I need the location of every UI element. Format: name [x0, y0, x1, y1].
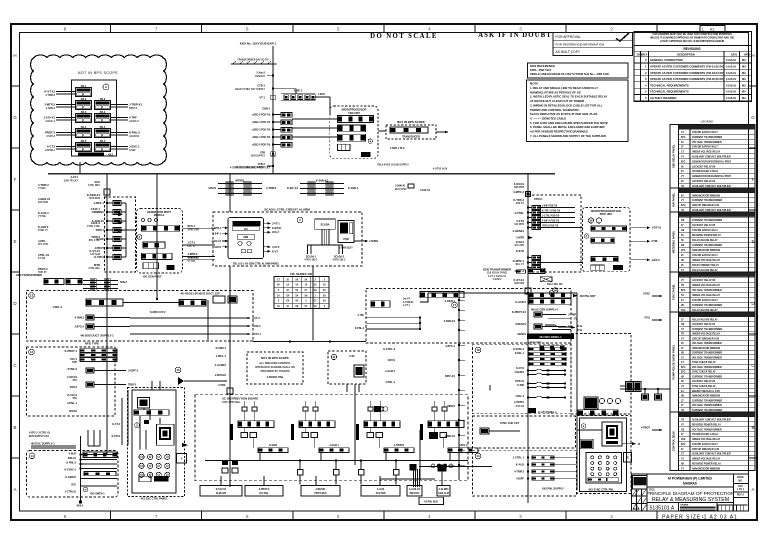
- title block scale cells: [717, 505, 719, 511]
- svg-text:5A: 5A: [323, 300, 326, 303]
- wires feeder to protection module: [575, 227, 583, 229]
- svg-text:K-XT01: K-XT01: [516, 368, 525, 370]
- svg-text:CTRL DIFF: CTRL DIFF: [88, 185, 101, 187]
- svg-text:AUX 59N: AUX 59N: [376, 492, 386, 495]
- svg-text:REAR VT MET CKT SUPPLY: REAR VT MET CKT SUPPLY: [235, 88, 265, 91]
- svg-text:STATOR EARTH FAULT: STATOR EARTH FAULT: [692, 146, 718, 149]
- svg-text:4-MTR: 4-MTR: [318, 93, 325, 96]
- svg-text:K-51V-2: K-51V-2: [67, 393, 77, 397]
- svg-text:7. ALL PANELS SHOWN ARE SUPPLY: 7. ALL PANELS SHOWN ARE SUPPLY OF THE SU…: [530, 134, 606, 138]
- svg-text:PRINCIPLE DIAGRAM OF PROTECTIO: PRINCIPLE DIAGRAM OF PROTECTION: [647, 491, 735, 496]
- svg-text:K-VT-X1: K-VT-X1: [89, 249, 100, 253]
- svg-text:VOLTAGE TRANSFORMER: VOLTAGE TRANSFORMER: [692, 356, 722, 359]
- svg-text:J-87G-1: J-87G-1: [459, 444, 469, 447]
- svg-text:4-PNL-1: 4-PNL-1: [67, 401, 78, 405]
- svg-text:CURRENT TRANSFORMER: CURRENT TRANSFORMER: [692, 304, 722, 307]
- station service vertical bus v3: [229, 341, 231, 487]
- svg-text:4X0-1: 4X0-1: [76, 504, 84, 508]
- svg-text:PAPER SIZE 1 A2 03 A1: PAPER SIZE 1 A2 03 A1: [662, 515, 738, 521]
- svg-text:TRF01 POS-7/9: TRF01 POS-7/9: [542, 226, 559, 228]
- svg-text:SYNC: SYNC: [643, 293, 650, 296]
- svg-text:b: b: [105, 85, 107, 89]
- svg-text:11: 11: [332, 355, 335, 359]
- svg-text:59N-X1: 59N-X1: [68, 457, 77, 460]
- sync panel dashed enclosure: [577, 416, 631, 494]
- protection module connector 2: [591, 238, 615, 243]
- svg-text:FIELD FAILURE RELAY: FIELD FAILURE RELAY: [692, 318, 718, 321]
- control unit output wires: [263, 222, 270, 224]
- turbogenerator control unit: [228, 218, 263, 259]
- svg-text:J-GEN01: J-GEN01: [513, 229, 525, 233]
- svg-text:REV: REV: [643, 54, 648, 56]
- svg-text:4-BUS: 4-BUS: [69, 453, 77, 456]
- svg-text:87G: 87G: [681, 444, 686, 446]
- feeder tap relay: [107, 229, 113, 231]
- svg-text:XX: XX: [286, 301, 290, 303]
- svg-text:CURRENT TRANSFORMER: CURRENT TRANSFORMER: [692, 199, 722, 202]
- zone C lower wires: [81, 478, 118, 480]
- svg-text:MTR: MTR: [94, 263, 100, 267]
- annunciator display unit: [156, 424, 174, 445]
- feeder tap relay: [107, 202, 113, 204]
- excitation terminal bar: [134, 410, 169, 416]
- svg-text:4TB: 4TB: [260, 151, 265, 155]
- svg-text:J-EXC.2: J-EXC.2: [129, 119, 139, 123]
- svg-text:4-BUS01: 4-BUS01: [515, 322, 526, 326]
- svg-text:SYNC PANEL: SYNC PANEL: [672, 283, 676, 300]
- svg-text:RFB TYPE: RFB TYPE: [85, 342, 99, 346]
- svg-text:4-AUX: 4-AUX: [377, 488, 385, 491]
- cloud boundary NOT IN BPS SCOPE generator relay panel: [31, 55, 167, 165]
- microprocessor protection module dashed: [583, 207, 630, 271]
- svg-text:87G CTRL: 87G CTRL: [89, 240, 101, 242]
- svg-text:J-REL-2: J-REL-2: [52, 305, 62, 309]
- svg-text:AVR PANEL: AVR PANEL: [672, 192, 676, 207]
- svg-text:TR: TR: [681, 410, 684, 412]
- svg-text:UNLESS IT IS MARKED APPROVED B: UNLESS IT IS MARKED APPROVED BY OWNER OR…: [650, 37, 735, 40]
- svg-text:ALL BREAKER CONTROL: ALL BREAKER CONTROL: [259, 361, 291, 365]
- svg-text:K-PROT-1: K-PROT-1: [65, 349, 78, 353]
- right section vertical bus v6: [458, 290, 460, 480]
- svg-text:K-MTR-1: K-MTR-1: [513, 259, 525, 263]
- svg-text:J-59N-X1: J-59N-X1: [395, 185, 406, 188]
- protection module connector row 2: [143, 242, 165, 248]
- bus duct ladder: [83, 280, 118, 282]
- legend group AVR PANEL: [670, 187, 755, 189]
- NOT IN BPS SCOPE annotation box lower: [247, 352, 303, 384]
- svg-text:VT PNL: VT PNL: [38, 216, 47, 218]
- vertical feeder to 11kV bus bar 1: [272, 46, 274, 174]
- svg-text:59N MTR: 59N MTR: [514, 187, 524, 189]
- v8 stacked connector bars: [529, 293, 571, 298]
- svg-text:14.06.19: 14.06.19: [726, 65, 736, 69]
- svg-text:C/S: C/S: [244, 229, 248, 231]
- svg-text:LOCKOUT RELAY 86: LOCKOUT RELAY 86: [692, 279, 716, 282]
- svg-text:TRIP-2: TRIP-2: [128, 383, 137, 387]
- svg-text:51N: 51N: [681, 310, 686, 312]
- svg-text:VT-1: VT-1: [259, 96, 265, 100]
- svg-text:J-87G-2: J-87G-2: [74, 325, 84, 329]
- svg-text:TRIP-2: TRIP-2: [91, 235, 100, 239]
- T&M cell row 4: [338, 144, 351, 150]
- zone 1 contact taps: [527, 370, 529, 372]
- right feeder tap: [527, 227, 529, 229]
- svg-text:SCADA: SCADA: [320, 223, 329, 227]
- svg-text:14.06.19: 14.06.19: [726, 77, 736, 81]
- svg-text:UNDER VOLTAGE RELAY: UNDER VOLTAGE RELAY: [692, 284, 721, 287]
- tie wire center: [253, 341, 366, 343]
- module drop wires: [369, 428, 371, 433]
- bus duct transition components: [44, 279, 64, 285]
- svg-text:J-E/F-2: J-E/F-2: [652, 259, 661, 262]
- right generator feeder vertical bus: [527, 174, 529, 503]
- protection module connector row 1: [142, 225, 180, 231]
- svg-text:DATE: DATE: [731, 53, 738, 56]
- svg-text:TR: TR: [681, 285, 684, 287]
- right feeder tap: [527, 217, 529, 219]
- svg-text:4N BUS DUCT SUPPLY-1: 4N BUS DUCT SUPPLY-1: [80, 334, 114, 338]
- svg-text:SYNC CHECK RELAY: SYNC CHECK RELAY: [692, 385, 716, 388]
- cable duct bar: [258, 448, 288, 453]
- right zone ladder: [529, 347, 566, 350]
- svg-text:1 OF 1: 1 OF 1: [737, 489, 745, 491]
- wires to meter box: [577, 429, 602, 431]
- module drop wires: [304, 428, 306, 433]
- svg-text:ANNUNCIATOR WINDOW: ANNUNCIATOR WINDOW: [692, 467, 721, 470]
- svg-text:VT01: VT01: [644, 317, 650, 320]
- svg-text:K-TRF-1 POS-7/9: K-TRF-1 POS-7/9: [542, 211, 561, 213]
- switchgear zone A dashed enclosure: [27, 291, 254, 342]
- svg-text:CB: CB: [681, 324, 685, 326]
- svg-text:4-E/F-2: 4-E/F-2: [91, 221, 101, 225]
- svg-text:K-PNL-2: K-PNL-2: [355, 328, 365, 330]
- auxiliary bus segment 2: [419, 466, 492, 468]
- legend group SYNC PANEL: [670, 271, 755, 273]
- distribution module feeder: [303, 407, 308, 411]
- terminal block feeder A2: [179, 300, 206, 307]
- revisions table column rules: [640, 51, 642, 101]
- svg-text:VT REL: VT REL: [38, 188, 47, 190]
- zone C second striped bar: [84, 472, 116, 476]
- svg-text:TBL 101-1 4X GEN CTRL ALARM: TBL 101-1 4X GEN CTRL ALARM PANEL: [233, 262, 280, 265]
- svg-text:13: 13: [30, 294, 34, 298]
- zone 0 relays: [534, 312, 542, 317]
- flag markers on dashed box edge: [118, 213, 123, 216]
- circled ref 2: [297, 217, 303, 223]
- svg-text:K-SYNC-1: K-SYNC-1: [64, 469, 76, 472]
- svg-text:PUMP HOUSE SWGR PANEL: PUMP HOUSE SWGR PANEL: [672, 344, 676, 379]
- module4 black sq: [429, 432, 438, 439]
- svg-text:AUXILIARY CONTACT MULTIPLIER: AUXILIARY CONTACT MULTIPLIER: [692, 209, 731, 212]
- svg-text:M: M: [638, 444, 640, 446]
- svg-text:4-REL.2: 4-REL.2: [515, 395, 524, 398]
- svg-text:TRIP-X1: TRIP-X1: [515, 381, 525, 383]
- svg-text:J-51V-1: J-51V-1: [252, 332, 262, 336]
- svg-text:J-EXC-1: J-EXC-1: [45, 119, 55, 123]
- wire lower taps to module: [541, 262, 583, 264]
- svg-text:LOCKOUT RELAY 86: LOCKOUT RELAY 86: [692, 380, 716, 383]
- svg-text:5A: 5A: [305, 278, 308, 281]
- feeder tap relay: [107, 220, 113, 222]
- VT junction: [271, 95, 275, 99]
- svg-text:C3M-1: C3M-1: [262, 107, 270, 111]
- svg-text:B: B: [13, 425, 16, 430]
- svg-text:MTR01: MTR01: [235, 179, 244, 183]
- svg-text:J-XT1: J-XT1: [70, 175, 78, 179]
- feeder tee to metering ladder: [273, 88, 296, 90]
- svg-text:TRIP: TRIP: [72, 362, 78, 364]
- svg-text:4X2 SYNC CTRL PNL: 4X2 SYNC CTRL PNL: [588, 487, 614, 491]
- svg-text:CT 64F: CT 64F: [38, 257, 46, 260]
- svg-text:TRIP-1: TRIP-1: [96, 228, 105, 232]
- generator panel label bar: [78, 153, 104, 156]
- svg-text:M POWERGEN (P) LIMITED: M POWERGEN (P) LIMITED: [668, 477, 712, 481]
- svg-text:K-AVR.2: K-AVR.2: [38, 225, 49, 229]
- cable duct bar: [384, 448, 414, 453]
- svg-text:18: 18: [476, 348, 480, 352]
- svg-text:SHT: SHT: [738, 486, 743, 488]
- drop wires from 11kV busbar: [156, 174, 158, 184]
- center vertical bus v4: [354, 384, 356, 465]
- circled ref 30: [553, 288, 558, 293]
- svg-text:AUXILIARY CONTACT MULTIPLIER: AUXILIARY CONTACT MULTIPLIER: [692, 453, 731, 456]
- svg-text:REVISIONS: REVISIONS: [683, 47, 700, 51]
- right section vertical bus v8: [576, 293, 578, 490]
- svg-text:AUXILIARY CONTACT MULTIPLIER: AUXILIARY CONTACT MULTIPLIER: [692, 185, 731, 188]
- wire generator panel to bus: [79, 162, 81, 174]
- svg-text:J-59N-2: J-59N-2: [46, 106, 56, 110]
- svg-text:J-59N01: J-59N01: [369, 240, 379, 243]
- title block company name: [646, 474, 648, 511]
- svg-text:LOCKOUT RELAY 86: LOCKOUT RELAY 86: [692, 165, 716, 168]
- svg-text:15: 15: [176, 368, 180, 372]
- wires box B to AC distribution: [121, 398, 123, 445]
- svg-text:BUS SUPPLY CKT: BUS SUPPLY CKT: [29, 436, 50, 438]
- svg-text:59N-2: 59N-2: [120, 280, 128, 284]
- svg-text:SYNC AVR: SYNC AVR: [188, 229, 200, 232]
- svg-text:TBL SERIES 100: TBL SERIES 100: [290, 272, 313, 276]
- svg-text:K-AUX-1: K-AUX-1: [38, 211, 49, 215]
- wires far right: [620, 385, 626, 387]
- SCADA control circuit alarm dashed enclosure: [213, 212, 362, 266]
- meter box right: [602, 422, 622, 446]
- svg-text:SCADA-1: SCADA-1: [306, 256, 317, 259]
- X-marked box: [540, 277, 552, 282]
- distribution module feeder: [432, 407, 437, 411]
- svg-text:LOCKOUT RELAY 86: LOCKOUT RELAY 86: [692, 224, 716, 227]
- v3 flanking components: [222, 460, 228, 465]
- svg-text:4X1 MCC PANEL-1: 4X1 MCC PANEL-1: [539, 335, 562, 339]
- svg-text:TRANS DUCER 4-20mA: TRANS DUCER 4-20mA: [692, 170, 718, 173]
- svg-text:J-O/C01: J-O/C01: [514, 182, 525, 186]
- svg-text:11 XT1 PANEL-1: 11 XT1 PANEL-1: [538, 411, 557, 414]
- svg-text:d: d: [85, 488, 87, 492]
- SCADA cable riser bundle: [321, 229, 323, 245]
- svg-text:REL CT: REL CT: [516, 264, 525, 266]
- generator relay panel enclosure: [72, 80, 117, 156]
- legend group GEN RELAY PANEL: [670, 124, 755, 126]
- svg-text:14.06.19: 14.06.19: [726, 71, 736, 75]
- svg-text:LEGEND: LEGEND: [701, 119, 714, 123]
- right dashed zone box 1: [473, 345, 572, 414]
- metering ladder output wire: [316, 96, 330, 98]
- svg-text:G: G: [13, 115, 17, 120]
- sync cluster bar: [578, 410, 618, 416]
- svg-text:87G: 87G: [681, 367, 686, 369]
- svg-text:CURRENT TRANSFORMER: CURRENT TRANSFORMER: [692, 375, 722, 378]
- svg-text:K-VT: K-VT: [272, 249, 278, 253]
- svg-text:J-REL-1: J-REL-1: [216, 354, 227, 358]
- svg-text:J-87G: J-87G: [38, 239, 45, 243]
- svg-text:F: F: [752, 177, 755, 182]
- svg-text:XT AUX: XT AUX: [92, 211, 101, 214]
- svg-text:J-CTRL-1: J-CTRL-1: [513, 456, 525, 460]
- svg-text:4X1 EXC CTRL PANEL: 4X1 EXC CTRL PANEL: [140, 497, 168, 501]
- svg-text:TBL# 4XC 101: TBL# 4XC 101: [547, 283, 563, 286]
- svg-text:5A: 5A: [323, 294, 326, 297]
- feeder drop x157 to box A: [156, 184, 158, 300]
- svg-text:K-REL-1: K-REL-1: [515, 353, 525, 355]
- svg-text:ALM AVR: ALM AVR: [216, 492, 227, 495]
- svg-text:87G01: 87G01: [69, 409, 77, 413]
- svg-text:AVR AVR: AVR AVR: [514, 282, 524, 285]
- circled ref 14: [29, 453, 35, 459]
- right dashed zone box 2: [473, 416, 576, 448]
- svg-text:4-AUX-X1: 4-AUX-X1: [409, 488, 421, 491]
- excitation transformer block: [138, 398, 150, 409]
- svg-text:CURRENT TRANSFORMER: CURRENT TRANSFORMER: [692, 399, 722, 402]
- arrow marker right of panel: [182, 443, 188, 447]
- zone B relays: [86, 368, 94, 373]
- svg-text:K-E/F-X1: K-E/F-X1: [287, 186, 299, 190]
- wires to relay row: [56, 91, 76, 93]
- junction square right feeder: [525, 288, 531, 294]
- svg-text:4XJ: 4XJ: [108, 153, 113, 157]
- svg-text:LOCKOUT RELAY 86: LOCKOUT RELAY 86: [692, 180, 716, 183]
- right feeder junction block: [526, 192, 531, 197]
- svg-text:CURRENT TRANSFORMER: CURRENT TRANSFORMER: [692, 136, 722, 139]
- svg-text:UNDER VOLTAGE RELAY: UNDER VOLTAGE RELAY: [692, 294, 721, 297]
- test switch circle: [141, 218, 144, 221]
- right feeder tap: [527, 212, 529, 214]
- busbar cable link ladder: [300, 183, 344, 185]
- svg-text:ASK IF IN DOUBT: ASK IF IN DOUBT: [478, 32, 552, 39]
- svg-text:LATEST APPROVED REV NO. IS INC: LATEST APPROVED REV NO. IS INCORPORATED …: [660, 40, 725, 43]
- svg-text:TBL# 4XXX 101/1N SUPPLY: TBL# 4XXX 101/1N SUPPLY: [377, 164, 409, 167]
- svg-text:4-PROT.2: 4-PROT.2: [259, 488, 270, 491]
- MCC panel black title bar: [527, 334, 574, 340]
- svg-text:PROT UNIT: PROT UNIT: [600, 214, 613, 216]
- transducer output wire: [436, 131, 448, 133]
- svg-text:K-GEN: K-GEN: [269, 444, 277, 447]
- approval checkmark: [616, 33, 629, 41]
- svg-text:SYNC.2: SYNC.2: [67, 367, 77, 371]
- far right black cluster: [626, 382, 634, 392]
- svg-text:K-PNL-2: K-PNL-2: [129, 131, 140, 135]
- cable duct bar: [448, 448, 478, 453]
- svg-text:1A: 1A: [323, 284, 326, 287]
- zone row ticks right: [749, 85, 757, 87]
- svg-text:E: E: [751, 239, 754, 244]
- svg-text:KKS No. 11KV BUS BAR 1: KKS No. 11KV BUS BAR 1: [240, 42, 277, 46]
- distribution module feeder: [368, 407, 373, 411]
- zone C vertical bus: [80, 436, 82, 502]
- wire T&M unit to transducer: [378, 130, 386, 132]
- svg-text:TR: TR: [681, 420, 684, 422]
- svg-text:SYNC CHK CKT: SYNC CHK CKT: [500, 421, 520, 425]
- svg-text:TRANSFORMER BAY (E) TIE: TRANSFORMER BAY (E) TIE: [237, 59, 269, 62]
- right margin arrows to legend: [652, 295, 662, 297]
- svg-text:MA: MA: [742, 83, 746, 87]
- svg-text:2-XF: 2-XF: [349, 354, 355, 358]
- svg-text:51V-1: 51V-1: [70, 357, 77, 361]
- svg-text:MADRAS: MADRAS: [683, 482, 697, 486]
- module drop wires: [243, 428, 245, 433]
- svg-text:FIELD FAILURE RELAY: FIELD FAILURE RELAY: [692, 239, 718, 242]
- svg-text:1A: 1A: [277, 294, 280, 297]
- svg-text:K-AUX: K-AUX: [516, 463, 524, 467]
- protection module connector row 3: [142, 253, 173, 259]
- keypad aux box right: [624, 453, 632, 462]
- svg-text:1-Xip-2: 1-Xip-2: [256, 71, 265, 75]
- svg-text:4-TRIP-2: 4-TRIP-2: [38, 183, 49, 187]
- svg-text:MICROPROCESSOR GEN: MICROPROCESSOR GEN: [591, 210, 621, 213]
- svg-text:CTRL REL: CTRL REL: [89, 268, 101, 270]
- svg-text:87G: 87G: [681, 250, 686, 252]
- svg-text:K-SYNC.2: K-SYNC.2: [513, 349, 525, 351]
- notes box: [527, 80, 629, 142]
- svg-text:FIELD FAILURE RELAY: FIELD FAILURE RELAY: [692, 309, 718, 312]
- feeder coils on bus: [299, 459, 301, 461]
- gen transformer mini bars: [517, 270, 526, 274]
- svg-text:J-DIFF-2: J-DIFF-2: [128, 369, 139, 373]
- svg-text:REAR VT MET CKT SUPPLY: REAR VT MET CKT SUPPLY: [235, 166, 265, 169]
- svg-text:UNDER VOLTAGE RELAY: UNDER VOLTAGE RELAY: [692, 333, 721, 336]
- svg-text:CIRCUIT BREAKER AUX: CIRCUIT BREAKER AUX: [692, 448, 720, 451]
- svg-text:VOLTAGE TRANSFORMER: VOLTAGE TRANSFORMER: [692, 289, 722, 292]
- circled ref 15: [175, 367, 181, 373]
- svg-text:MA: MA: [742, 96, 746, 100]
- svg-text:GEN01: GEN01: [517, 332, 526, 336]
- svg-text:4-64F: 4-64F: [129, 148, 136, 152]
- svg-text:MODULE: MODULE: [154, 214, 165, 217]
- svg-text:59N01: 59N01: [447, 404, 455, 408]
- svg-text:4-O/C01: 4-O/C01: [67, 375, 78, 379]
- svg-text:4TB-2: 4TB-2: [258, 162, 266, 166]
- svg-text:1A: 1A: [295, 284, 298, 287]
- switchgear zone B dashed enclosure: [27, 347, 116, 416]
- svg-text:REV A: REV A: [737, 494, 744, 497]
- svg-text:UNDER VOLTAGE RELAY: UNDER VOLTAGE RELAY: [692, 259, 721, 262]
- svg-text:K-AVR-1: K-AVR-1: [348, 186, 359, 190]
- svg-text:4N AC GEN SUPPLY-1: 4N AC GEN SUPPLY-1: [531, 308, 559, 312]
- protection module connector 3: [591, 257, 618, 262]
- svg-text:4-REL01: 4-REL01: [444, 434, 455, 438]
- zone A output arrows: [130, 317, 250, 319]
- svg-text:51N: 51N: [681, 439, 686, 441]
- revisions table: [634, 46, 752, 102]
- svg-text:51V CTRL: 51V CTRL: [38, 244, 49, 246]
- svg-text:K-TRF-2: K-TRF-2: [513, 198, 524, 202]
- revision note paragraph box: [634, 31, 752, 45]
- svg-text:VOLTAGE TRANSFORMER: VOLTAGE TRANSFORMER: [692, 428, 722, 431]
- svg-text:J-VT-X1: J-VT-X1: [515, 406, 524, 408]
- svg-text:J-BUS01: J-BUS01: [215, 373, 227, 377]
- wires to relay row: [56, 132, 76, 134]
- svg-text:GEN BAY: GEN BAY: [255, 75, 266, 78]
- svg-text:5A: 5A: [323, 289, 326, 292]
- svg-text:4 RTU 101-2: 4 RTU 101-2: [333, 259, 347, 262]
